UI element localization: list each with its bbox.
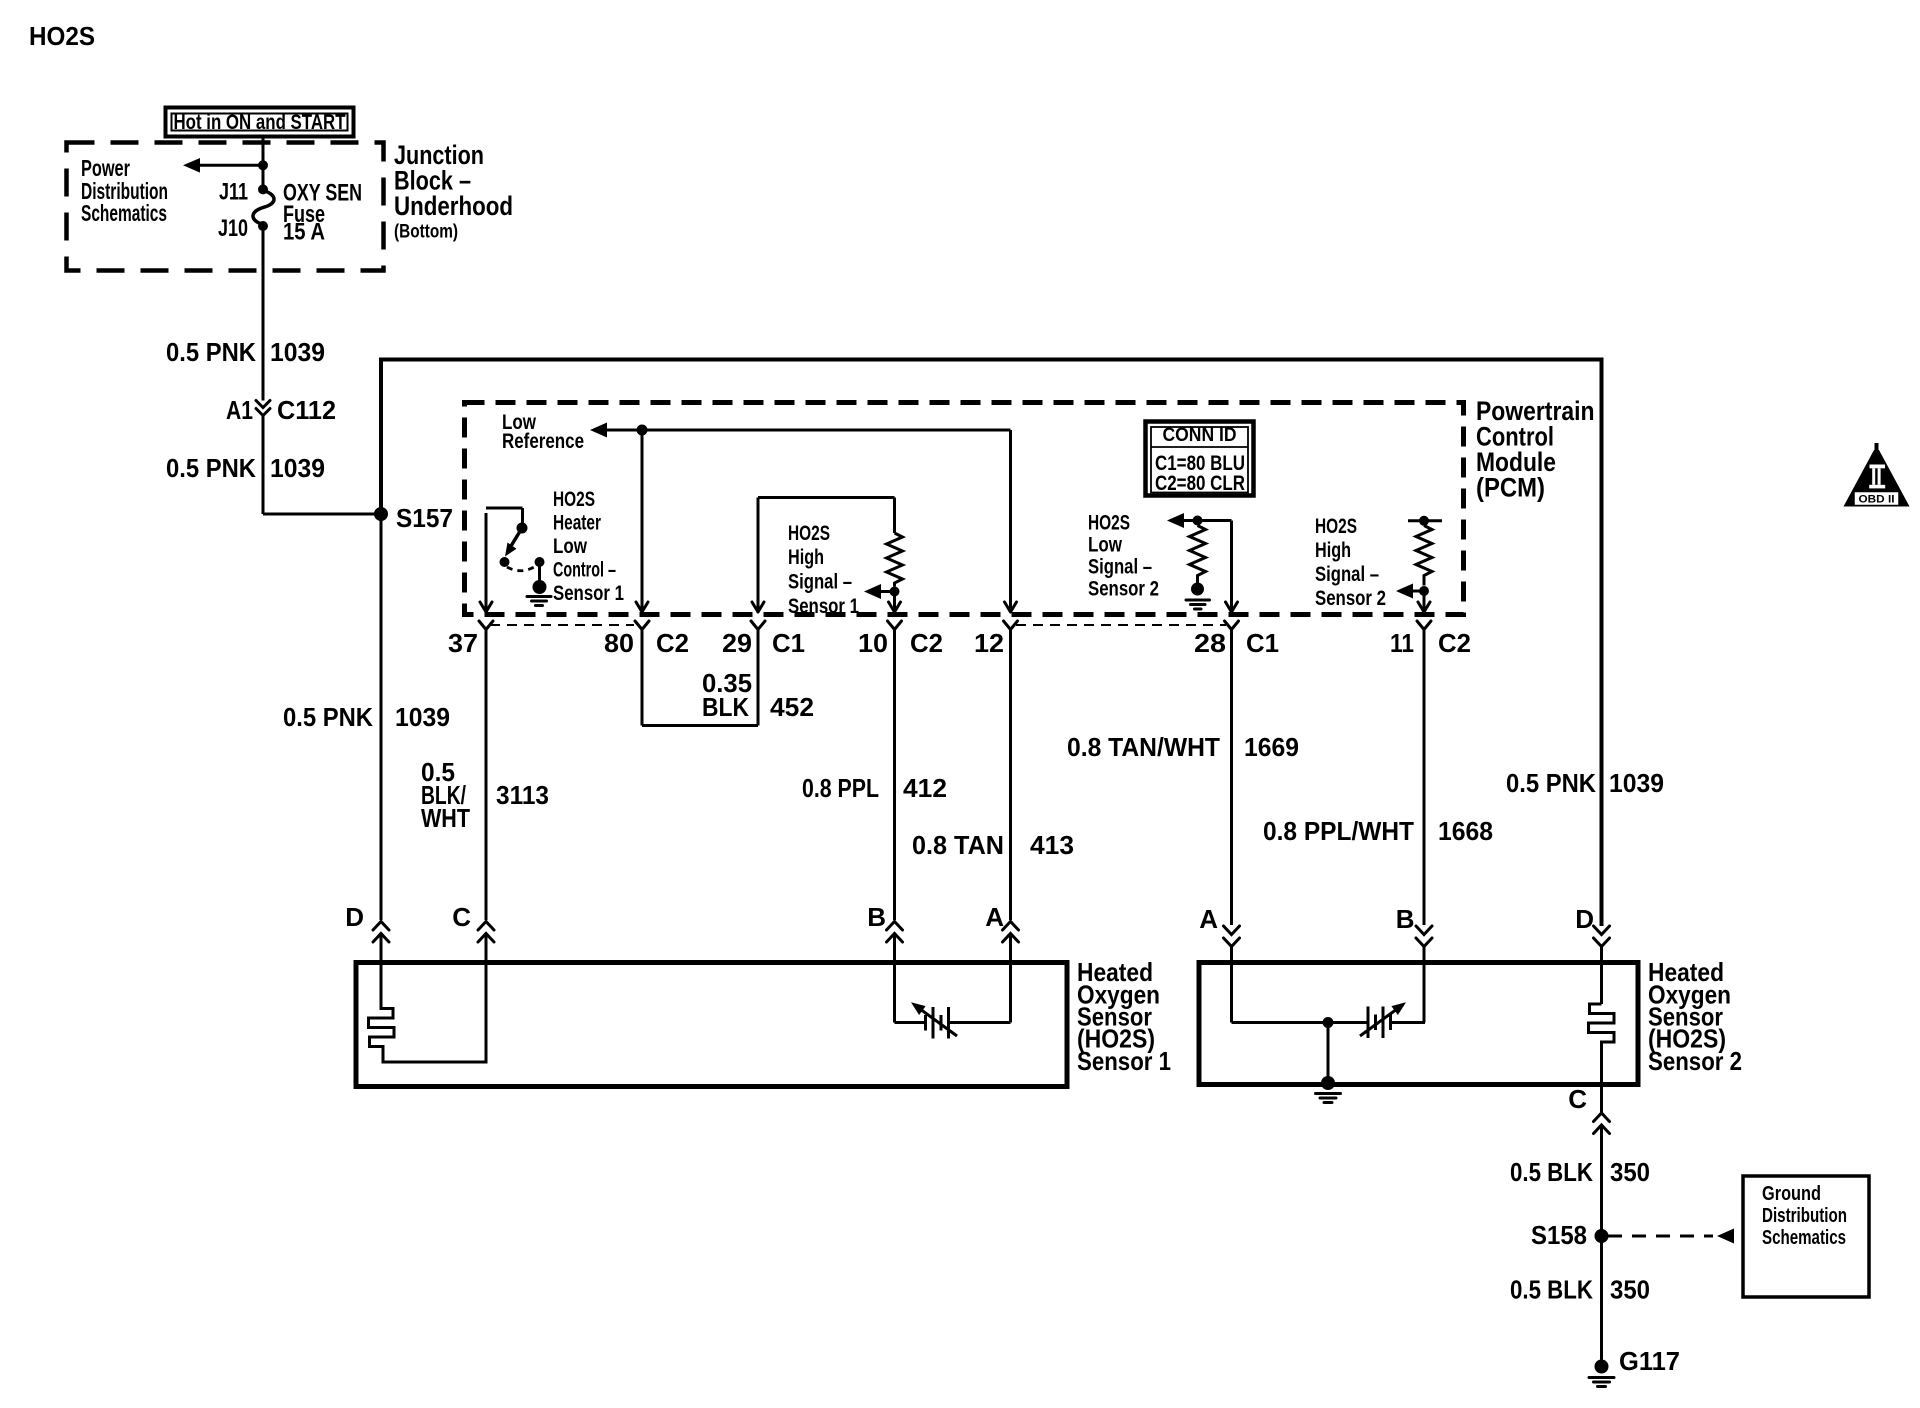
connector C112 terminal A1 [226, 395, 336, 425]
svg-text:C: C [1568, 1084, 1587, 1114]
svg-text:350: 350 [1610, 1157, 1650, 1187]
svg-text:1668: 1668 [1438, 816, 1493, 846]
svg-text:Sensor 2: Sensor 2 [1088, 578, 1159, 601]
svg-text:1039: 1039 [270, 337, 325, 367]
svg-text:1039: 1039 [1609, 768, 1664, 798]
svg-text:Control –: Control – [553, 559, 616, 582]
svg-text:0.8 PPL/WHT: 0.8 PPL/WHT [1263, 816, 1414, 846]
wire from Hot feed down to fuse [262, 137, 265, 191]
arrow to HO2S High Signal Sensor 2 label [1396, 584, 1424, 599]
svg-text:G117: G117 [1619, 1346, 1680, 1376]
svg-text:412: 412 [903, 773, 947, 803]
PCM connector line (thin dashed) [490, 624, 1226, 626]
wire 0.5 PNK feed loop over PCM to sensor 2 heater [381, 360, 1602, 927]
svg-text:0.5 PNK: 0.5 PNK [166, 337, 256, 367]
svg-text:0.8 TAN: 0.8 TAN [912, 830, 1004, 860]
terminal J10 [258, 221, 268, 231]
svg-text:0.5 PNK: 0.5 PNK [166, 453, 256, 483]
svg-text:0.5 PNK: 0.5 PNK [283, 702, 373, 732]
svg-text:1669: 1669 [1244, 732, 1299, 762]
svg-text:A1: A1 [226, 395, 253, 425]
HO2S Low Signal - Sensor 2 label [1088, 512, 1159, 601]
pin 80 terminal C2 [604, 621, 689, 658]
svg-text:S157: S157 [396, 503, 453, 533]
resistor (HO2S High Signal Sensor 2) [1416, 526, 1432, 586]
svg-text:0.5 BLK: 0.5 BLK [1510, 1275, 1593, 1305]
svg-text:(Bottom): (Bottom) [394, 222, 458, 243]
svg-text:J11: J11 [219, 179, 248, 206]
junction node sensor 2 signal ground [1323, 1017, 1334, 1028]
junction node above pin 11 [1419, 586, 1429, 596]
svg-text:(PCM): (PCM) [1476, 473, 1545, 503]
Junction Block label [394, 140, 513, 243]
svg-text:WHT: WHT [421, 803, 470, 833]
sensing element sensor 2 (variable cell) [1232, 1002, 1426, 1038]
svg-text:B: B [867, 902, 886, 932]
wire 0.5 PNK 1039 from S157 down to sensor 1 heater D [283, 514, 450, 920]
svg-text:HO2S: HO2S [29, 21, 95, 51]
svg-text:Sensor 1: Sensor 1 [788, 595, 859, 618]
svg-text:Reference: Reference [502, 430, 584, 453]
ground G117 [1589, 1346, 1680, 1387]
sensor 2 box [1199, 963, 1638, 1085]
svg-text:C2=80 CLR: C2=80 CLR [1155, 472, 1245, 495]
svg-text:C2: C2 [656, 628, 689, 658]
HO2S Heater Low Control driver (switch) for sensor 1, pin 37 [480, 508, 545, 612]
svg-text:0.5 PNK: 0.5 PNK [1506, 768, 1596, 798]
svg-text:350: 350 [1610, 1275, 1650, 1305]
svg-text:Sensor 1: Sensor 1 [1077, 1046, 1171, 1076]
svg-text:Schematics: Schematics [1762, 1227, 1846, 1249]
arrow to Power Distribution Schematics [183, 158, 263, 173]
wire 0.5 BLK/WHT 3113 pin 37 to sensor 1 C [421, 630, 549, 921]
connector C sensor 1 [452, 902, 494, 963]
wire 0.8 TAN/WHT 1669 pin 28 to sensor 2 A [1067, 630, 1299, 926]
svg-text:J10: J10 [218, 215, 248, 242]
svg-text:Sensor 1: Sensor 1 [553, 582, 624, 605]
svg-text:High: High [788, 546, 824, 569]
wire 0.5 PNK 1039 from J10 to C112 [262, 226, 265, 401]
svg-text:C: C [452, 902, 471, 932]
svg-text:Heater: Heater [553, 512, 601, 535]
svg-text:0.8 TAN/WHT: 0.8 TAN/WHT [1067, 732, 1220, 762]
wire junction to pin 10 [889, 592, 901, 613]
svg-text:Underhood: Underhood [394, 191, 513, 221]
connector B sensor 2 [1396, 904, 1432, 1023]
svg-text:C2: C2 [910, 628, 943, 658]
svg-text:Hot in ON and START: Hot in ON and START [174, 111, 346, 134]
Heated Oxygen Sensor (HO2S) Sensor 2 label [1648, 957, 1742, 1076]
wire 0.8 PPL 412 pin 10 to sensor 1 B [802, 630, 947, 921]
wire 0.8 TAN 413 pin 12 to sensor 1 A [912, 630, 1074, 921]
svg-text:Low: Low [1088, 534, 1123, 557]
svg-text:D: D [1575, 904, 1594, 934]
dashed reference wire to Ground Distribution Schematics [1608, 1229, 1734, 1244]
HO2S Heater Low Control - Sensor 1 label [553, 488, 624, 605]
fuse OXY SEN 15 A [253, 191, 274, 225]
svg-text:1039: 1039 [270, 453, 325, 483]
svg-text:BLK: BLK [702, 692, 749, 722]
svg-text:HO2S: HO2S [1315, 515, 1357, 538]
svg-text:10: 10 [858, 628, 888, 658]
HO2S High Signal Sensor 1 pull-up circuit pins 29/10 [752, 498, 895, 613]
svg-text:High: High [1315, 539, 1351, 562]
svg-text:C112: C112 [277, 395, 336, 425]
svg-text:11: 11 [1390, 628, 1414, 658]
svg-text:Distribution: Distribution [1762, 1205, 1847, 1227]
svg-text:37: 37 [448, 628, 478, 658]
svg-text:B: B [1396, 904, 1415, 934]
PCM dashed box [465, 403, 1464, 615]
ground inside sensor 2 [1316, 1023, 1341, 1103]
splice S157 [374, 507, 388, 521]
junction block dashed box [67, 143, 384, 271]
svg-text:Schematics: Schematics [81, 200, 167, 226]
svg-text:0.8 PPL: 0.8 PPL [802, 773, 879, 803]
sensor 1 box [356, 963, 1067, 1087]
svg-text:Sensor 2: Sensor 2 [1648, 1046, 1742, 1076]
svg-text:Signal –: Signal – [1315, 563, 1379, 586]
Heated Oxygen Sensor (HO2S) Sensor 1 label [1077, 957, 1171, 1076]
wire 0.35 BLK 452 loop pins 80-29 [642, 630, 814, 726]
junction node below resistor pin 10 [890, 587, 900, 597]
svg-text:C2: C2 [1438, 628, 1471, 658]
pin 28 terminal C1 [1194, 621, 1279, 658]
svg-text:C1: C1 [772, 628, 805, 658]
svg-text:Sensor 2: Sensor 2 [1315, 587, 1386, 610]
svg-text:D: D [345, 902, 364, 932]
svg-text:80: 80 [604, 628, 634, 658]
svg-text:HO2S: HO2S [788, 522, 830, 545]
CONN ID table [1146, 422, 1254, 496]
resistor (HO2S High Signal Sensor 1) [887, 533, 903, 587]
connector D sensor 2 [1575, 904, 1609, 1004]
svg-text:Signal –: Signal – [1088, 556, 1152, 579]
arrow to HO2S High Signal Sensor 1 label [864, 584, 895, 599]
svg-text:CONN ID: CONN ID [1163, 425, 1237, 446]
Hot in ON and START box [166, 108, 354, 137]
Powertrain Control Module (PCM) label [1476, 396, 1595, 503]
label 0.5 PNK 1039 right feed to sensor 2 D [1506, 768, 1664, 798]
Low Reference net wire with arrow [590, 423, 1017, 613]
svg-text:0.5 BLK: 0.5 BLK [1510, 1157, 1593, 1187]
HO2S High Signal - Sensor 2 label [1315, 515, 1386, 610]
splice S158 [1595, 1229, 1609, 1243]
Low Reference label [502, 411, 584, 453]
connector A sensor 2 [1199, 904, 1239, 1023]
OBD II symbol [1844, 443, 1910, 507]
wire B sensor 2 internal [1423, 963, 1426, 1023]
svg-text:3113: 3113 [496, 780, 549, 810]
junction node pin 28 net [1193, 516, 1203, 526]
wire Low Reference to pin 80 [636, 430, 648, 612]
HO2S Low Signal Sensor 2 circuit pin 28 [1167, 513, 1238, 612]
resistor (HO2S Low Signal Sensor 2) [1190, 526, 1206, 584]
svg-text:C1: C1 [1246, 628, 1279, 658]
svg-text:Ground: Ground [1762, 1183, 1821, 1205]
wire 0.8 PPL/WHT 1668 pin 11 to sensor 2 B [1263, 630, 1493, 926]
svg-text:1039: 1039 [395, 702, 450, 732]
Power Distribution Schematics reference text [81, 155, 168, 226]
svg-text:S158: S158 [1531, 1220, 1587, 1250]
sensing element sensor 1 (variable cell) [895, 1002, 1011, 1038]
Ground Distribution Schematics box [1743, 1176, 1869, 1297]
svg-text:OBD II: OBD II [1859, 494, 1895, 506]
junction node at J11 feed [258, 160, 268, 170]
junction node on Low Reference to pin 80 [637, 425, 648, 436]
pin 11 terminal C2 [1390, 621, 1471, 658]
connector C sensor 2 [1568, 1084, 1609, 1134]
svg-text:12: 12 [974, 628, 1004, 658]
connector D sensor 1 [345, 902, 389, 963]
wire 0.5 BLK 350 sensor 2 C to S158 [1510, 1125, 1650, 1236]
svg-text:413: 413 [1030, 830, 1074, 860]
HO2S High Signal Sensor 2 circuit pin 11 [1408, 516, 1442, 526]
wire 0.5 PNK 1039 from C112 to S157 [166, 416, 381, 515]
terminal J11 [258, 184, 268, 194]
svg-text:28: 28 [1194, 628, 1226, 658]
heater element sensor 2 [1589, 1004, 1615, 1112]
pin 10 terminal C2 [858, 621, 943, 658]
svg-text:A: A [985, 902, 1004, 932]
HO2S High Signal - Sensor 1 label [788, 522, 859, 618]
pin 29 terminal C1 [722, 621, 805, 658]
svg-text:452: 452 [770, 692, 814, 722]
wire 0.5 BLK 350 S158 to G117 [1510, 1236, 1650, 1362]
connector B sensor 1 [867, 902, 902, 1023]
connector A sensor 1 [985, 902, 1018, 1023]
svg-text:HO2S: HO2S [553, 488, 595, 511]
ground inside PCM (low signal sensor 2) [1186, 583, 1210, 610]
ground inside PCM (heater low control) [527, 580, 551, 606]
pin 12 terminal [974, 621, 1018, 658]
wire to pin 11 [1418, 591, 1430, 612]
heater element sensor 1 [369, 963, 487, 1062]
svg-text:Low: Low [553, 535, 588, 558]
pin 37 terminal [448, 621, 493, 658]
svg-text:Signal –: Signal – [788, 571, 852, 594]
svg-text:HO2S: HO2S [1088, 512, 1130, 535]
svg-text:A: A [1199, 904, 1218, 934]
svg-text:15 A: 15 A [283, 219, 325, 246]
svg-text:29: 29 [722, 628, 752, 658]
